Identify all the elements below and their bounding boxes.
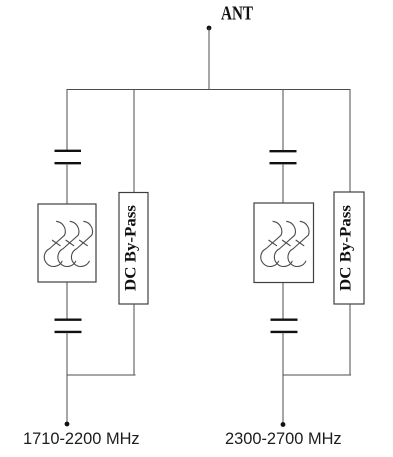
- wire right DC branch vertical (bus to DC box): [349, 89, 351, 192]
- wire right branch: bus to top capacitor: [282, 90, 284, 151]
- component U1 DC By-Pass box (left): [119, 193, 148, 305]
- node ANT terminal dot: [207, 26, 212, 31]
- wire left branch: bus to top capacitor: [66, 90, 68, 151]
- svg-text:DC By-Pass: DC By-Pass: [123, 205, 140, 291]
- wire left: filter box to bottom capacitor: [66, 282, 68, 319]
- svg-text:2300-2700 MHz: 2300-2700 MHz: [225, 430, 342, 448]
- wire left: capacitor to filter box: [66, 164, 68, 205]
- filter F2 wave symbol: [261, 221, 309, 266]
- capacitor right bottom (series): [271, 320, 298, 332]
- wire right bottom connector: [283, 374, 351, 376]
- svg-text:1710-2200 MHz: 1710-2200 MHz: [23, 430, 140, 448]
- capacitor left bottom (series): [55, 320, 82, 332]
- wire ANT vertical: [208, 28, 210, 90]
- filter F2 box (right band-pass filter): [254, 203, 314, 283]
- node left output terminal: [65, 422, 70, 427]
- wire right DC branch: box to bottom connector: [349, 304, 351, 375]
- svg-text:ANT: ANT: [221, 3, 253, 25]
- wire left DC branch: box to bottom connector: [133, 304, 135, 375]
- filter F1 wave symbol: [44, 221, 92, 266]
- wire left bottom connector: [67, 374, 136, 376]
- wire right: capacitor to filter box: [282, 164, 284, 203]
- svg-text:DC By-Pass: DC By-Pass: [338, 205, 355, 291]
- component U2 DC By-Pass box (right): [334, 192, 364, 304]
- capacitor right top (series): [270, 151, 297, 163]
- wire right: bottom capacitor to output: [282, 333, 284, 425]
- wire right: filter box to bottom capacitor: [282, 283, 284, 320]
- filter F1 box (left band-pass filter): [38, 204, 96, 282]
- wire left: bottom capacitor to output: [66, 333, 68, 425]
- wire top bus horizontal: [67, 89, 351, 91]
- capacitor left top (series): [55, 151, 82, 163]
- wire left DC branch vertical (bus to DC box): [133, 90, 135, 193]
- node right output terminal: [281, 422, 286, 427]
